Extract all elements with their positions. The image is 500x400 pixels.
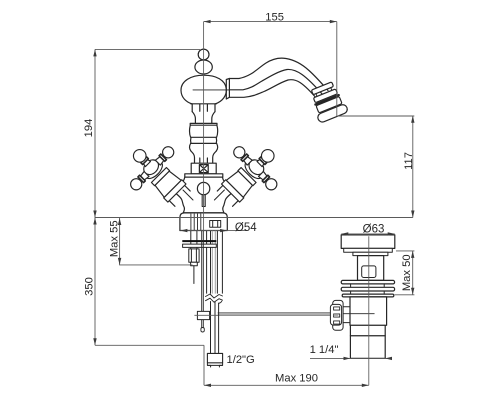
rod centerline: [194, 314, 218, 316]
faucet body: [173, 177, 233, 213]
dim 194 ext top: [95, 48, 200, 50]
drain square hole: [362, 266, 376, 278]
dim 350 line: [94, 218, 96, 346]
dim d54 line: [180, 230, 246, 232]
dimension lines: [95, 22, 414, 386]
drain centerline: [368, 236, 370, 385]
horizontal rod: [218, 313, 334, 315]
column bead 3: [190, 143, 218, 151]
spout hub: [226, 79, 229, 100]
lift rod: [202, 231, 204, 328]
svg-text:117: 117: [403, 152, 415, 170]
drain disc 1: [341, 280, 394, 284]
dim max55 line: [120, 218, 193, 265]
column cove lower: [191, 151, 216, 163]
washer dark: [182, 240, 216, 242]
drain flange lip: [344, 248, 393, 252]
body midline: [193, 89, 229, 91]
mounting nut: [189, 249, 199, 262]
drain connect block: [343, 307, 350, 323]
centerlines: [194, 22, 368, 386]
spout mid curve: [229, 69, 323, 95]
svg-text:Max 190: Max 190: [275, 372, 318, 384]
pipe break squiggle: [206, 294, 223, 302]
svg-text:Ø63: Ø63: [363, 223, 385, 235]
dim max190 ext left: [203, 345, 205, 385]
supply nut band: [207, 363, 222, 366]
drain knurl outer: [333, 300, 343, 330]
drain gap edges 1: [351, 284, 385, 287]
supply pipe lines lower: [211, 302, 219, 354]
block ledge: [185, 174, 223, 177]
supply nut feet: [208, 365, 223, 367]
base stud box: [210, 221, 221, 228]
aerator: [307, 80, 348, 123]
drain neck: [358, 256, 384, 281]
svg-text:194: 194: [83, 119, 95, 138]
dim 114 line: [310, 357, 392, 359]
bonnet crease right: [214, 190, 224, 200]
svg-text:1/2"G: 1/2"G: [227, 354, 255, 366]
drain step: [353, 252, 388, 255]
base internals: [191, 214, 201, 230]
svg-text:155: 155: [265, 11, 284, 23]
diverter block: [191, 163, 216, 174]
dim max190 line: [204, 384, 369, 386]
base plate: [180, 213, 227, 231]
dim 117 line: [412, 116, 414, 218]
drain disc 3: [342, 294, 394, 297]
dim 117 ext top: [337, 115, 415, 117]
handle left: [115, 131, 202, 218]
counter top line: [95, 217, 413, 219]
column collar: [190, 123, 217, 125]
column bead 1: [190, 125, 218, 137]
rod clamp: [197, 311, 209, 319]
faucet centerline: [203, 22, 205, 231]
drain tailpiece: [350, 336, 385, 359]
handle right: [205, 131, 292, 218]
stud end line: [193, 266, 195, 284]
svg-text:350: 350: [84, 277, 96, 296]
dim 194 line: [94, 49, 96, 217]
drain body: [350, 297, 387, 325]
dim 155 line: [204, 21, 337, 23]
drain disc 2: [341, 287, 394, 291]
column cove upper: [192, 112, 215, 124]
mounting nut tip: [191, 262, 198, 266]
faucet body dome: [181, 75, 226, 104]
lift knob ball: [197, 182, 209, 194]
drain knurl slots: [334, 307, 340, 324]
column neck: [191, 104, 217, 112]
arrowheads: [93, 20, 414, 387]
svg-text:Ø54: Ø54: [235, 222, 257, 234]
supply pipe shading: [212, 231, 215, 294]
spout top curve: [229, 58, 328, 90]
dim d63 line: [341, 233, 394, 235]
drain rod line: [334, 313, 375, 315]
diverter box: [199, 165, 208, 173]
svg-text:1 1/4": 1 1/4": [310, 344, 339, 356]
drain coupling: [350, 325, 385, 336]
supply nut: [207, 353, 222, 363]
bonnet crease left: [183, 190, 193, 200]
drain gap edges 2: [351, 291, 385, 294]
finial ball large: [195, 60, 212, 74]
dim 350 ext bottom: [95, 344, 204, 346]
svg-text:Max 55: Max 55: [109, 220, 121, 257]
washer plate: [183, 244, 217, 247]
dim 155 ext right: [336, 22, 338, 116]
drain flange: [341, 235, 395, 249]
pipe break cut: [205, 294, 223, 301]
dim max50 leaders: [395, 251, 415, 295]
shank stud lines: [191, 231, 197, 249]
finial ball small: [198, 49, 209, 60]
supply pipe lines upper: [207, 231, 223, 304]
lift knob stem: [202, 195, 205, 207]
drain knurl inner: [330, 304, 341, 325]
drain rod in slot: [334, 313, 339, 316]
column bead 2: [191, 137, 217, 143]
spout bottom curve: [229, 80, 317, 99]
lift rod tip: [201, 328, 204, 333]
svg-text:Max 50: Max 50: [401, 254, 413, 291]
dim max50 line: [412, 251, 414, 295]
